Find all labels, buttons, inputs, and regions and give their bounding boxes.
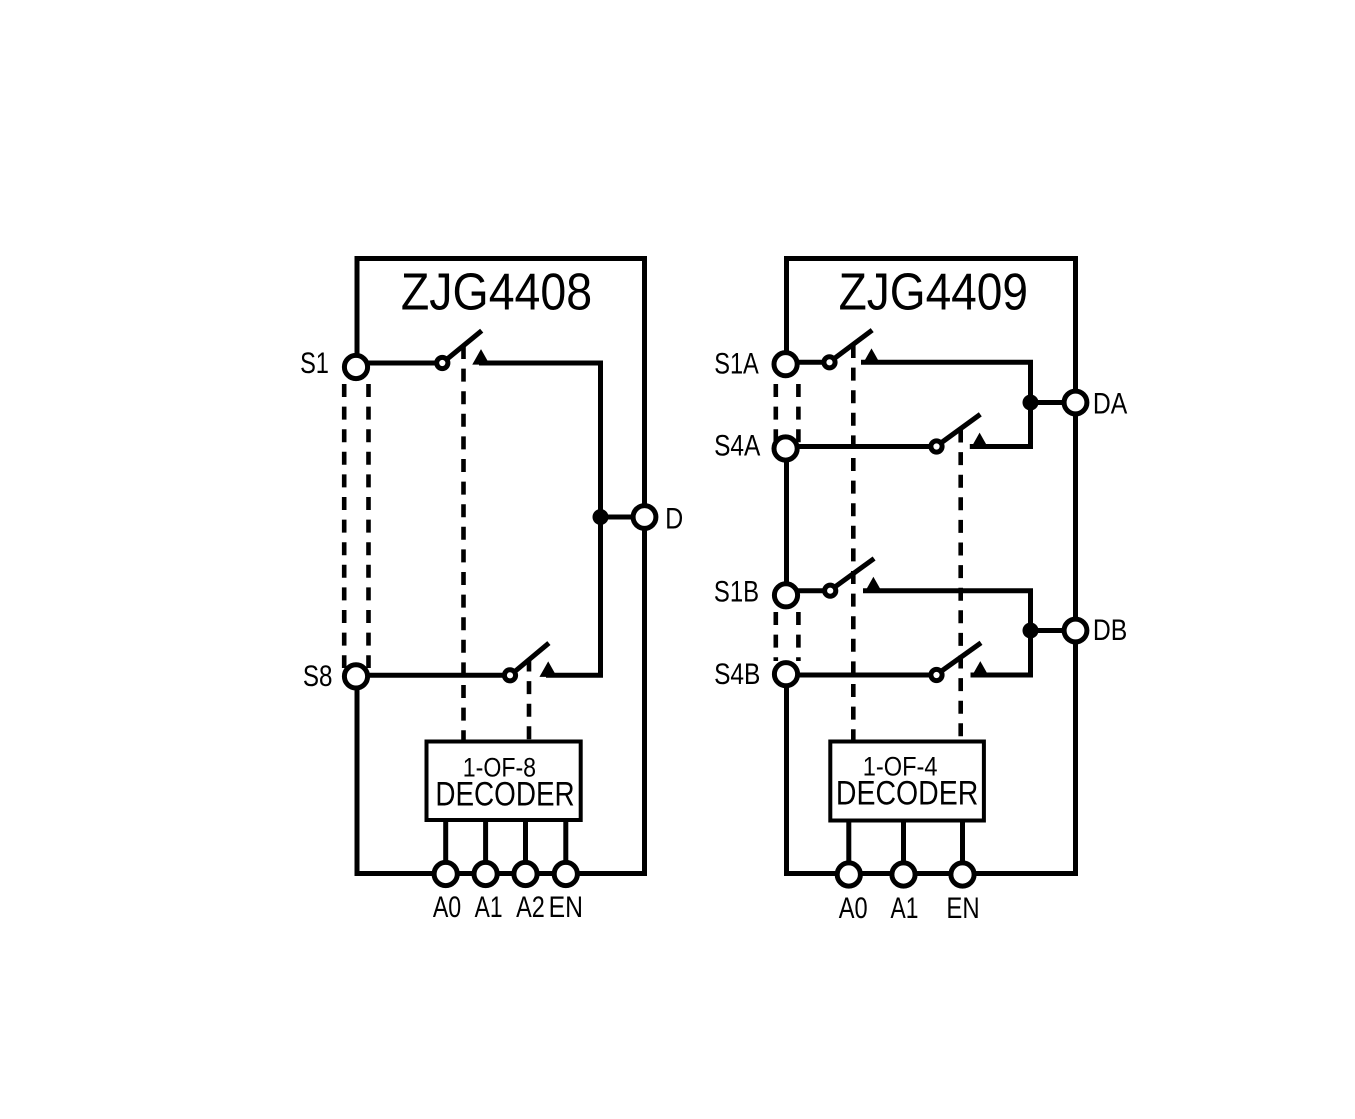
terminal S1A xyxy=(774,353,797,376)
node S2A-S3A omitted-channels dashed line left xyxy=(773,384,778,447)
svg-text:A1: A1 xyxy=(891,891,919,925)
switch SW4A arrowhead xyxy=(971,433,989,449)
wire common output bus of U1 (SW1 and SW8 to node D) xyxy=(479,363,601,675)
junction node D xyxy=(593,509,609,525)
wire node DB to terminal DB xyxy=(1031,628,1076,633)
node S2-S7 omitted-channels dashed line right xyxy=(366,384,371,668)
svg-text:DECODER: DECODER xyxy=(435,775,574,813)
switch SW1 arrowhead xyxy=(472,349,490,365)
wire S1A input to switch SW1A xyxy=(787,360,831,365)
terminal EN of U1 xyxy=(554,862,577,885)
terminal S8 xyxy=(344,665,367,688)
switch SW1B contact circle xyxy=(825,585,836,596)
terminal DA xyxy=(1064,391,1087,414)
switch SW1A arrowhead xyxy=(863,348,881,364)
terminal S4A xyxy=(774,437,797,460)
terminal EN of U2 xyxy=(951,863,974,886)
terminal DB xyxy=(1064,619,1087,642)
switch SW1 contact circle xyxy=(437,357,448,368)
svg-text:S1A: S1A xyxy=(714,347,759,380)
wire U1 decoder pin A1 xyxy=(483,820,488,862)
wire S8 input to switch SW8 xyxy=(356,673,511,678)
switch SW1B lever xyxy=(835,559,874,587)
wire node DA to terminal DA xyxy=(1031,400,1076,405)
terminal A0 of U2 xyxy=(837,863,860,886)
switch SW4B lever xyxy=(941,643,981,671)
IC U2 ZJG4409 package outline xyxy=(787,259,1076,874)
IC U1 ZJG4408 package outline xyxy=(357,259,645,874)
svg-text:D: D xyxy=(665,502,683,535)
svg-text:DECODER: DECODER xyxy=(836,774,978,812)
wire DB output bus (SW1B and SW4B to node DB) xyxy=(863,591,1031,675)
wire U1 decoder pin A0 xyxy=(443,820,448,862)
wire U2 decoder pin A1 xyxy=(901,821,906,863)
wire DA output bus (SW1A and SW4A to node DA) xyxy=(861,362,1031,446)
switch SW1A lever xyxy=(834,330,872,358)
wire U1 decoder control line to switch SW1 (dashed) xyxy=(461,346,466,742)
switch SW8 arrowhead xyxy=(539,661,557,677)
svg-text:ZJG4408: ZJG4408 xyxy=(401,263,592,321)
svg-text:DA: DA xyxy=(1093,386,1128,420)
terminal A0 of U1 xyxy=(434,862,457,885)
wire U2 decoder control line to switches SW4A/SW4B (dashed) xyxy=(958,430,963,742)
svg-text:A1: A1 xyxy=(475,890,503,924)
switch SW8 lever xyxy=(515,643,549,671)
wire U2 decoder control line to switches SW1A/SW1B (dashed) xyxy=(851,345,856,742)
svg-text:EN: EN xyxy=(549,890,583,924)
switch SW1 lever xyxy=(447,331,482,359)
terminal D xyxy=(633,506,656,529)
svg-text:ZJG4409: ZJG4409 xyxy=(839,264,1028,321)
junction node DB xyxy=(1023,623,1039,639)
wire U1 decoder pin EN xyxy=(563,820,568,862)
node S2-S7 omitted-channels dashed line left xyxy=(342,384,347,668)
svg-text:A0: A0 xyxy=(433,890,461,923)
switch SW1B arrowhead xyxy=(865,577,883,593)
wire S1B input to switch SW1B xyxy=(787,588,832,593)
svg-text:S4A: S4A xyxy=(714,428,761,462)
wire U1 decoder pin A2 xyxy=(523,820,528,862)
svg-text:A2: A2 xyxy=(516,890,545,923)
junction node DA xyxy=(1023,395,1039,411)
svg-text:S4B: S4B xyxy=(714,657,760,691)
wire U2 decoder pin EN xyxy=(960,821,965,863)
U1 1-OF-8 decoder block xyxy=(427,742,581,821)
switch SW4A contact circle xyxy=(931,441,942,452)
switch SW4B arrowhead xyxy=(972,661,990,677)
svg-text:S8: S8 xyxy=(303,660,333,693)
node S2B-S3B omitted-channels dashed line left xyxy=(773,612,778,661)
wire U2 decoder pin A0 xyxy=(846,821,851,863)
switch SW8 contact circle xyxy=(504,670,515,681)
svg-text:S1B: S1B xyxy=(714,575,759,608)
node S2A-S3A omitted-channels dashed line right xyxy=(796,384,801,447)
wire node D to terminal D xyxy=(601,515,646,520)
U2 1-OF-4 decoder block xyxy=(830,742,984,821)
terminal A1 of U1 xyxy=(474,862,497,885)
terminal A2 of U1 xyxy=(514,862,537,885)
wire S1 input to switch SW1 xyxy=(356,361,443,366)
switch SW4B contact circle xyxy=(931,669,942,680)
wire S4B input to switch SW4B xyxy=(787,673,938,678)
svg-text:DB: DB xyxy=(1093,613,1127,647)
terminal S1 xyxy=(344,355,367,378)
svg-text:S1: S1 xyxy=(300,346,329,379)
wire S4A input to switch SW4A xyxy=(787,444,938,449)
wire U1 decoder control line to switch SW8 (dashed) xyxy=(527,659,532,742)
terminal A1 of U2 xyxy=(892,863,915,886)
svg-text:EN: EN xyxy=(946,892,979,925)
terminal S4B xyxy=(774,663,797,686)
svg-text:A0: A0 xyxy=(839,891,868,924)
terminal S1B xyxy=(774,584,797,607)
node S2B-S3B omitted-channels dashed line right xyxy=(796,612,801,661)
switch SW1A contact circle xyxy=(824,357,835,368)
switch SW4A lever xyxy=(941,414,980,442)
